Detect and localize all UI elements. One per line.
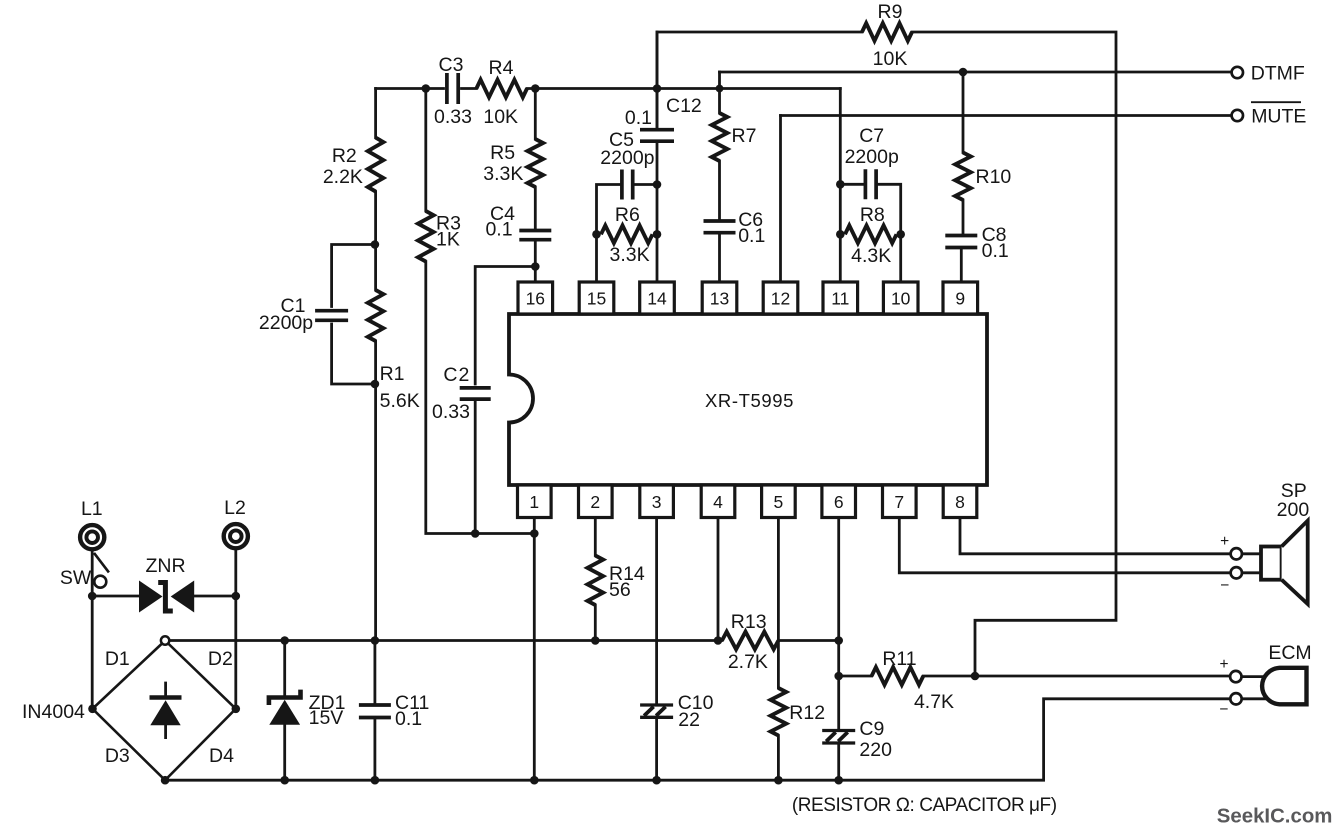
svg-text:3: 3 (652, 492, 662, 512)
capacitor C6 (704, 209, 766, 247)
node junction R4-R5 (531, 84, 540, 93)
resistor R13 (722, 611, 778, 673)
svg-text:4.7K: 4.7K (914, 691, 954, 713)
svg-text:10K: 10K (483, 106, 518, 128)
wire L2 down (234, 551, 237, 709)
resistor R6 (601, 204, 653, 266)
svg-text:5: 5 (774, 492, 784, 512)
wire R3 bottom to pin1 (426, 262, 535, 534)
node junction R8 right (896, 230, 905, 239)
pin 4 box (701, 485, 735, 518)
wire R7 to C6 (718, 161, 721, 219)
svg-text:MUTE: MUTE (1251, 106, 1306, 128)
node junction R11 left (834, 672, 843, 681)
resistor R11 (872, 648, 954, 713)
svg-text:R10: R10 (976, 166, 1012, 188)
node junction C2 bottom (471, 529, 480, 538)
svg-text:1: 1 (529, 492, 539, 512)
node junction SW bottom (88, 592, 97, 601)
wire C9 to bottom bus (837, 745, 840, 780)
svg-text:−: − (1220, 577, 1229, 594)
wire R10 top lead (962, 72, 965, 153)
svg-text:ZNR: ZNR (145, 555, 185, 577)
svg-text:R11: R11 (882, 648, 916, 670)
wire pin4 vertical (717, 518, 720, 641)
wire pin2 to R14 (594, 518, 597, 556)
wire R10 to C8 (962, 200, 965, 234)
pin 16 box (518, 282, 553, 314)
svg-text:R6: R6 (615, 204, 640, 226)
resistor R4 (476, 57, 527, 128)
wire C6 to pin13 (718, 235, 721, 283)
node junction C1 bottom (371, 380, 380, 389)
svg-text:R7: R7 (732, 125, 757, 147)
capacitor C3 (434, 54, 472, 128)
node junction C11 bottom (371, 776, 380, 785)
resistor R8 (845, 204, 897, 267)
svg-text:C3: C3 (439, 54, 464, 76)
svg-text:2.7K: 2.7K (728, 651, 768, 673)
wire C10 to bottom bus (655, 719, 658, 780)
wire pin7 to speaker minus (899, 518, 1230, 573)
capacitor C12 (625, 95, 702, 141)
node junction C5-C12 (653, 180, 662, 189)
switch SW (60, 552, 109, 597)
svg-text:ECM: ECM (1268, 642, 1311, 664)
svg-text:R4: R4 (489, 57, 514, 79)
pin 12 box (763, 282, 798, 314)
wire R12 to bottom bus (777, 736, 780, 781)
svg-text:C12: C12 (666, 95, 702, 117)
wire R9 right to DTMF/MUTE corner down right side (912, 32, 1116, 676)
wire pin1 vertical (533, 518, 536, 781)
svg-text:2200p: 2200p (259, 312, 313, 334)
svg-text:L2: L2 (224, 497, 246, 519)
pin 5 box (762, 485, 796, 518)
node junction R11 right (971, 672, 980, 681)
svg-text:3.3K: 3.3K (483, 163, 523, 185)
diode ZD1 zener (269, 641, 346, 781)
svg-text:0.33: 0.33 (434, 106, 472, 128)
node junction R14 bottom (591, 636, 600, 645)
pin 7 box (883, 485, 917, 518)
node junction pin6 mid (834, 636, 843, 645)
resistor R10 (955, 153, 1011, 201)
svg-text:+: + (1219, 656, 1228, 673)
capacitor C10 electrolytic (640, 692, 714, 731)
node junction pin1 bottom (530, 776, 539, 785)
wire R1 bottom to mid bus (374, 341, 377, 641)
pin 2 box (579, 485, 613, 518)
svg-text:C7: C7 (859, 125, 884, 147)
capacitor C8 (945, 224, 1008, 262)
svg-text:3.3K: 3.3K (610, 244, 650, 266)
svg-text:0.1: 0.1 (982, 240, 1009, 262)
capacitor C4 (485, 203, 551, 241)
svg-text:D2: D2 (208, 648, 233, 670)
svg-text:0.1: 0.1 (738, 225, 765, 247)
wire ZNR leads (92, 595, 236, 598)
resistor R2 (323, 138, 384, 192)
svg-text:14: 14 (647, 289, 667, 309)
svg-text:−: − (1219, 701, 1228, 718)
diode bridge center diode symbol (150, 683, 182, 738)
svg-text:8: 8 (955, 492, 965, 512)
pin 3 box (640, 485, 674, 518)
svg-text:2200p: 2200p (600, 147, 654, 169)
node bridge right vertex (232, 705, 241, 714)
resistor R14 (588, 556, 645, 606)
node junction C9 bottom (834, 776, 843, 785)
svg-text:R2: R2 (332, 145, 357, 167)
wire R9 top line left segment (657, 32, 862, 130)
terminal L1 (80, 498, 104, 549)
wire bottom bus (165, 699, 1231, 780)
wire MUTE line (781, 114, 1232, 117)
svg-text:R9: R9 (878, 1, 903, 23)
svg-text:0.1: 0.1 (485, 219, 512, 241)
svg-text:56: 56 (609, 579, 631, 601)
node junction R6 left (592, 230, 601, 239)
svg-text:D3: D3 (105, 745, 130, 767)
capacitor C5 (600, 129, 657, 200)
resistor R9 (862, 1, 912, 70)
svg-text:SW: SW (60, 567, 92, 589)
wire pin15 vertical (597, 185, 620, 283)
svg-text:2200p: 2200p (845, 146, 899, 168)
svg-text:13: 13 (710, 289, 729, 309)
svg-text:22: 22 (678, 709, 700, 731)
svg-text:SeekIC.com: SeekIC.com (1217, 806, 1333, 828)
wire C8 to pin9 (960, 250, 963, 283)
node junction R3/top bus (422, 84, 431, 93)
svg-text:2.2K: 2.2K (323, 166, 363, 188)
wire pin12 vertical (779, 116, 782, 283)
wire R11 to ECM plus (923, 675, 1230, 678)
terminal DTMF (1232, 67, 1243, 78)
wire pin3 vertical (655, 518, 658, 704)
op-amp U1 XR-T5995 IC body (509, 314, 987, 485)
wire mid bus (170, 639, 839, 642)
wire pin11 vertical (839, 89, 842, 283)
svg-text:C2: C2 (443, 364, 470, 386)
svg-text:XR-T5995: XR-T5995 (705, 390, 794, 411)
wire top bus y88.5 (376, 87, 841, 90)
svg-text:R13: R13 (731, 611, 767, 633)
pin 15 box (579, 282, 614, 314)
node junction R7 top bus (716, 85, 724, 93)
node junction R6 right (653, 230, 662, 239)
pin 1 box (518, 485, 552, 518)
node junction pin1 wire (530, 529, 539, 538)
svg-text:1K: 1K (436, 229, 460, 251)
svg-text:R12: R12 (789, 702, 825, 724)
wire SW junction down to bridge (91, 596, 94, 709)
svg-text:C9: C9 (859, 718, 884, 740)
wire C12 to pin14 (656, 143, 659, 282)
pin 9 box (943, 282, 978, 314)
node bridge left vertex (88, 705, 97, 714)
terminal MUTE (1232, 110, 1243, 121)
node junction ZD1 top (280, 636, 289, 645)
resistor R12 (771, 688, 825, 736)
node junction R8 left (836, 230, 845, 239)
svg-text:+: + (1220, 533, 1229, 550)
svg-text:16: 16 (526, 289, 545, 309)
wire pin8 to speaker plus (960, 518, 1231, 554)
wire C4 to pin16 (534, 242, 537, 283)
wire R14 to mid bus (594, 605, 597, 641)
node junction C1 top (371, 240, 380, 249)
svg-text:0.1: 0.1 (395, 708, 422, 730)
capacitor C7 (840, 125, 900, 282)
resistor R3 (418, 211, 461, 262)
svg-text:R5: R5 (490, 142, 515, 164)
resistor R5 (483, 139, 543, 187)
svg-text:7: 7 (894, 492, 904, 512)
node junction C7 left (836, 180, 845, 189)
microphone ECM (1219, 642, 1311, 718)
diode bridge diamond D1 D2 D3 D4 (93, 644, 236, 780)
wire R2 top lead (374, 89, 377, 138)
svg-text:5.6K: 5.6K (380, 390, 420, 412)
svg-text:0.33: 0.33 (432, 401, 470, 423)
svg-text:R8: R8 (860, 204, 885, 226)
svg-text:15: 15 (587, 289, 606, 309)
node bridge bottom vertex (161, 776, 170, 785)
capacitor C11 (359, 641, 429, 781)
capacitor C2 branch (432, 267, 535, 534)
svg-text:0.1: 0.1 (625, 107, 652, 129)
svg-text:9: 9 (955, 289, 965, 309)
svg-text:4.3K: 4.3K (851, 245, 891, 267)
wire R7 top lead (718, 72, 721, 113)
label MUTE with overline (1251, 102, 1306, 127)
terminal L2 (224, 497, 248, 548)
svg-text:L1: L1 (81, 498, 103, 520)
node junction C11 top (371, 636, 380, 645)
wire R3 top lead (424, 89, 427, 212)
svg-text:2: 2 (590, 492, 600, 512)
node junction C12 top bus (653, 84, 662, 93)
svg-text:10K: 10K (873, 48, 908, 70)
node junction L2-ZNR (232, 592, 241, 601)
pin 10 box (883, 282, 918, 314)
pin 6 box (822, 485, 856, 518)
svg-text:DTMF: DTMF (1251, 63, 1305, 85)
svg-text:R1: R1 (380, 363, 405, 385)
wire pin5 vertical (777, 518, 780, 689)
speaker SP (1220, 480, 1309, 604)
wire DTMF line (720, 71, 1232, 74)
svg-text:D4: D4 (209, 745, 234, 767)
pin 14 box (640, 282, 675, 314)
svg-text:IN4004: IN4004 (22, 701, 85, 723)
wire R5 to C4 (534, 187, 537, 229)
wire pin6 vertical (837, 518, 840, 729)
svg-text:11: 11 (831, 289, 849, 309)
capacitor C1 parallel branch (259, 245, 375, 385)
svg-text:12: 12 (771, 289, 790, 309)
node junction ZD1 bottom (280, 776, 289, 785)
node DTMF junction R10 (959, 68, 968, 77)
svg-text:(RESISTOR Ω: CAPACITOR μF): (RESISTOR Ω: CAPACITOR μF) (792, 795, 1057, 816)
svg-text:10: 10 (891, 289, 911, 309)
pin 8 box (943, 485, 977, 518)
resistor R1 (368, 290, 420, 412)
resistor R7 (712, 113, 757, 161)
svg-text:15V: 15V (309, 707, 344, 729)
node bridge top circle (161, 636, 169, 644)
varistor ZNR (139, 555, 194, 613)
node junction R12 bottom (774, 776, 783, 785)
node junction pin4-R13 (714, 636, 723, 645)
wire C12 top lead (656, 32, 659, 128)
wire pin6 to R11 (839, 675, 872, 678)
pin 13 box (702, 282, 737, 314)
svg-text:220: 220 (859, 739, 892, 761)
svg-text:D1: D1 (105, 648, 130, 670)
svg-text:6: 6 (834, 492, 844, 512)
wire R2 to R1 (374, 192, 377, 291)
pin 11 box (823, 282, 858, 314)
node junction C10 bottom (652, 776, 661, 785)
wire R5 top lead (534, 89, 537, 140)
svg-text:200: 200 (1277, 499, 1310, 521)
svg-text:4: 4 (713, 492, 723, 512)
capacitor C9 electrolytic (822, 718, 892, 761)
node junction C2 branch (531, 262, 540, 271)
